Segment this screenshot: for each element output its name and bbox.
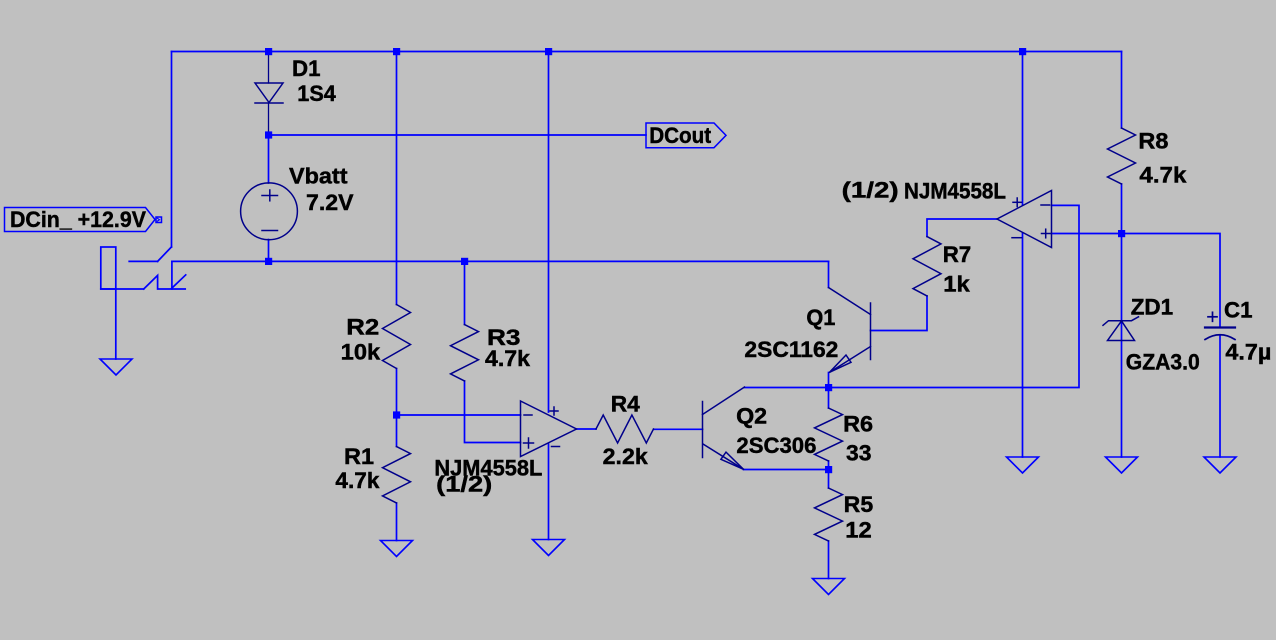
svg-text:2SC1162: 2SC1162 xyxy=(744,337,838,362)
wire R3 bottom to opamp plus input xyxy=(465,381,521,443)
wire Q2 emitter xyxy=(744,469,829,471)
svg-text:2.2k: 2.2k xyxy=(603,444,648,469)
wire Vbatt minus xyxy=(268,240,270,262)
svg-text:4.7k: 4.7k xyxy=(335,468,379,493)
wire R6 top xyxy=(828,388,830,409)
ground jack xyxy=(100,359,132,375)
node junction top D1 xyxy=(265,48,272,55)
jack sleeve to ground xyxy=(115,289,117,359)
wire R7 to Q1 base xyxy=(871,296,928,331)
ground opamp U1 xyxy=(533,540,565,556)
jack tip stub xyxy=(129,260,157,262)
wire C1 bottom to ground xyxy=(1219,335,1221,457)
node junction top opamp1 V+ xyxy=(545,48,552,55)
ground ZD1 xyxy=(1106,457,1138,473)
wire opamp1 V+ xyxy=(548,52,550,413)
wire opamp2 plus input rail xyxy=(1052,234,1221,328)
svg-text:7.2V: 7.2V xyxy=(306,190,354,215)
resistor R4 xyxy=(596,415,654,443)
svg-text:R8: R8 xyxy=(1138,129,1168,154)
resistor R2 xyxy=(383,305,411,369)
svg-text:Q1: Q1 xyxy=(806,305,835,330)
node junction Q1 emitter Q2 collector xyxy=(825,384,832,391)
node junction top opamp2 V+ xyxy=(1019,48,1026,55)
ground R5 xyxy=(813,579,845,595)
svg-text:33: 33 xyxy=(846,441,872,466)
svg-text:10k: 10k xyxy=(341,340,381,365)
wire R5 top xyxy=(828,470,830,489)
transistor Q1 xyxy=(829,288,871,373)
resistor R8 xyxy=(1108,128,1136,184)
wire R2 column xyxy=(396,52,398,305)
wire R4 to Q2 base xyxy=(654,428,703,430)
wire Q1 emitter to node xyxy=(828,373,830,388)
wire Q2 collector rail xyxy=(745,205,1080,387)
jack check contact xyxy=(144,275,186,289)
svg-text:R5: R5 xyxy=(844,492,874,517)
wire Vbatt plus xyxy=(268,135,270,183)
wire left vertical from top rail to jack switch xyxy=(171,52,173,248)
wire DCout rail xyxy=(269,134,647,136)
op-amp U1 xyxy=(521,401,577,457)
node junction Vbatt minus xyxy=(265,258,272,265)
wire D1 anode xyxy=(268,52,270,84)
svg-text:GZA3.0: GZA3.0 xyxy=(1126,350,1200,375)
svg-text:R7: R7 xyxy=(943,242,972,267)
svg-text:1k: 1k xyxy=(943,272,970,297)
wire R2-R1 node xyxy=(396,369,398,447)
svg-text:D1: D1 xyxy=(292,56,321,81)
jack switch lever xyxy=(158,247,172,261)
svg-text:4.7k: 4.7k xyxy=(1139,163,1187,188)
op-amp U2 xyxy=(997,191,1052,248)
wire opamp2 output to R7 xyxy=(927,219,997,237)
jack connector J1 sleeve rectangle xyxy=(101,247,116,289)
wire R8 top xyxy=(1121,52,1123,129)
svg-text:(1/2): (1/2) xyxy=(842,178,899,203)
wire Q1 collector xyxy=(828,261,830,287)
wire top rail xyxy=(172,51,1122,53)
svg-text:4.7k: 4.7k xyxy=(485,346,530,371)
svg-text:R2: R2 xyxy=(346,315,379,340)
wire ZD1 column xyxy=(1121,234,1123,458)
flag DCin port xyxy=(5,208,162,232)
svg-text:R4: R4 xyxy=(611,392,640,417)
resistor R1 xyxy=(383,447,411,504)
transistor Q2 xyxy=(703,387,745,469)
svg-text:(1/2): (1/2) xyxy=(436,472,492,497)
wire opamp1 V- to ground xyxy=(548,444,550,540)
wire mid rail y=261 xyxy=(172,260,829,262)
ground R1 xyxy=(381,541,413,557)
wire R5 to ground xyxy=(828,541,830,579)
svg-text:ZD1: ZD1 xyxy=(1131,295,1174,320)
zener diode ZD1 xyxy=(1103,317,1139,341)
voltage source Vbatt xyxy=(241,183,298,240)
wire opamp2 V+ xyxy=(1022,52,1024,206)
svg-text:1S4: 1S4 xyxy=(297,81,336,106)
node junction R1 R2 divider xyxy=(393,411,400,418)
capacitor C1 xyxy=(1205,312,1235,339)
node junction top R2 xyxy=(393,48,400,55)
wire opamp minus input xyxy=(397,414,521,416)
svg-text:DCin_ +12.9V: DCin_ +12.9V xyxy=(10,207,146,232)
wire R3 top xyxy=(464,261,466,324)
wire opamp1 output to R4 xyxy=(577,428,597,430)
svg-text:R1: R1 xyxy=(344,444,374,469)
ground opamp U2 xyxy=(1007,457,1039,473)
resistor R5 xyxy=(815,488,843,541)
wire D1 cathode to node xyxy=(268,103,270,135)
resistor R7 xyxy=(913,237,941,297)
svg-text:Vbatt: Vbatt xyxy=(289,164,348,189)
svg-text:DCout: DCout xyxy=(649,123,711,148)
ground C1 xyxy=(1204,457,1236,473)
node junction Q2 emitter R6 R5 xyxy=(825,466,832,473)
resistor R6 xyxy=(815,408,843,461)
diode D1 xyxy=(255,83,283,103)
svg-text:C1: C1 xyxy=(1224,297,1253,322)
svg-text:R6: R6 xyxy=(843,412,873,437)
node junction R3 top xyxy=(461,258,468,265)
svg-text:4.7µ: 4.7µ xyxy=(1225,340,1271,365)
node junction R8 ZD1 xyxy=(1118,230,1125,237)
resistor R3 xyxy=(451,325,479,382)
jack bottom line xyxy=(101,288,144,290)
wire R8 bottom xyxy=(1121,184,1123,234)
wire R1 to ground xyxy=(396,503,398,541)
node junction DCout rail xyxy=(265,131,272,138)
flag DCout port xyxy=(646,123,726,148)
svg-text:Q2: Q2 xyxy=(736,404,767,429)
jack right tick xyxy=(172,275,186,289)
jack right pin vertical xyxy=(171,261,173,289)
svg-text:NJM4558L: NJM4558L xyxy=(904,178,1006,203)
svg-text:2SC306: 2SC306 xyxy=(736,433,816,458)
wire R6 bottom xyxy=(828,461,830,470)
wire opamp2 V- to ground xyxy=(1022,234,1024,458)
svg-text:12: 12 xyxy=(845,518,872,543)
